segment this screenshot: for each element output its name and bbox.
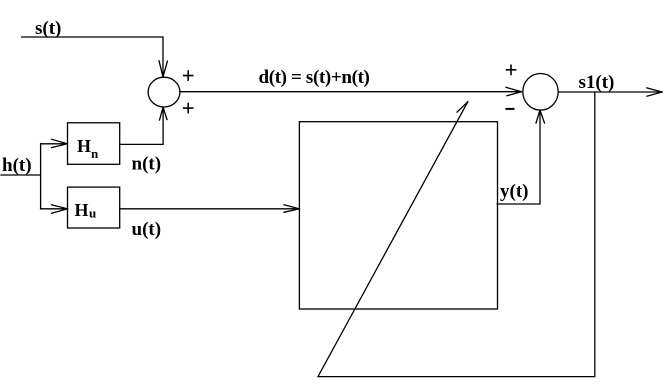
svg-text:u: u [89, 206, 96, 221]
svg-text:s1(t): s1(t) [579, 72, 615, 93]
svg-text:d(t) = s(t)+n(t): d(t) = s(t)+n(t) [259, 67, 370, 88]
svg-text:h(t): h(t) [2, 155, 32, 176]
svg-text:n(t): n(t) [132, 154, 162, 175]
svg-text:s(t): s(t) [35, 18, 61, 39]
svg-text:H: H [75, 200, 89, 220]
svg-text:n: n [91, 146, 99, 161]
svg-text:H: H [77, 136, 91, 156]
svg-text:y(t): y(t) [500, 181, 528, 202]
svg-text:u(t): u(t) [132, 219, 162, 240]
